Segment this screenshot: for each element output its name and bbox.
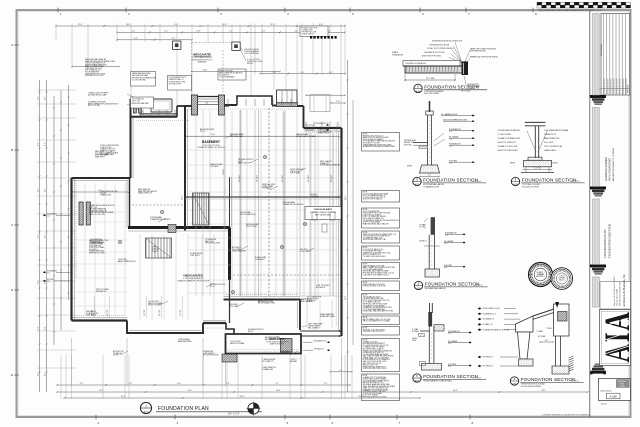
- svg-text:11'-1 3/4": 11'-1 3/4": [239, 175, 241, 182]
- svg-text:1/4" = 1'-0": 1/4" = 1'-0": [228, 413, 240, 416]
- svg-text:A: A: [11, 43, 13, 47]
- svg-text:PHALIN: PHALIN: [537, 273, 544, 276]
- svg-text:CONT TYP VERIFY: CONT TYP VERIFY: [316, 285, 330, 287]
- svg-text:CONC FTG W: CONC FTG W: [280, 351, 291, 353]
- svg-text:3'-0" TYP: 3'-0" TYP: [107, 310, 109, 316]
- svg-text:IN THICK KEYED JOINT EXP JT: IN THICK KEYED JOINT EXP JT: [363, 197, 386, 199]
- svg-text:12'-4": 12'-4": [78, 24, 83, 26]
- svg-text:1'-0": 1'-0": [448, 343, 452, 345]
- svg-text:LICENSED: LICENSED: [558, 278, 565, 280]
- svg-text:W/ EVERYBOND WILD: W/ EVERYBOND WILD: [470, 51, 487, 53]
- garage interior lines: [84, 183, 86, 316]
- svg-text:1" EXP JT: 1" EXP JT: [290, 359, 297, 361]
- svg-text:6'-2": 6'-2": [134, 38, 138, 40]
- svg-text:A190: A190: [416, 90, 420, 93]
- detail B title: [413, 177, 421, 185]
- svg-text:4'-0": 4'-0": [47, 216, 50, 218]
- front wall hatched band: [140, 114, 177, 117]
- stoop pier right: [219, 95, 225, 115]
- svg-text:184-0521: 184-0521: [559, 280, 565, 282]
- svg-text:Telephone: 312 793 0700 Fax: Telephone: 312 793 0700 Fax 312 793 0701: [614, 276, 616, 306]
- beam centerlines: [224, 110, 226, 230]
- svg-text:1'-8": 1'-8": [445, 235, 449, 237]
- svg-text:1'-6": 1'-6": [449, 146, 453, 148]
- svg-text:B: B: [11, 148, 13, 152]
- svg-text:1/2"=1'-0": 1/2"=1'-0": [475, 285, 483, 287]
- svg-text:FILLED W/ (4) #5 VERT: FILLED W/ (4) #5 VERT: [247, 61, 263, 63]
- AIA logo: [600, 310, 631, 366]
- svg-text:1'-0": 1'-0": [444, 243, 448, 245]
- svg-text:34'-6": 34'-6": [358, 396, 363, 398]
- detail F title: [510, 377, 518, 385]
- svg-text:1 3/4x9 1/4 LVL BM W/: 1 3/4x9 1/4 LVL BM W/: [244, 49, 259, 51]
- foundation plan title: [140, 402, 151, 413]
- garage right wall: [129, 178, 131, 228]
- svg-text:BED, CONNECT: BED, CONNECT: [308, 328, 319, 330]
- svg-text:A190: A190: [415, 379, 419, 382]
- svg-text:ROUGH-IN BATH: ROUGH-IN BATH: [314, 208, 332, 211]
- svg-text:CONC FTG W 2: CONC FTG W 2: [100, 147, 112, 149]
- svg-text:FTG W 2: FTG W 2: [100, 193, 106, 195]
- svg-text:28'-6": 28'-6": [240, 396, 245, 398]
- slab label box: [403, 61, 460, 67]
- svg-text:1'-0": 1'-0": [428, 175, 432, 177]
- note box: N5: [362, 246, 400, 260]
- detail E : wall section: [429, 303, 431, 313]
- svg-text:FOUNDATION PLAN: FOUNDATION PLAN: [158, 406, 209, 412]
- svg-text:8'-4": 8'-4": [37, 372, 39, 376]
- svg-text:NOTE:: NOTE:: [363, 209, 368, 211]
- svg-text:FT 0 IN REINF PER: FT 0 IN REINF PER: [85, 71, 100, 73]
- svg-text:24'-6": 24'-6": [182, 195, 184, 200]
- svg-text:16'-0": 16'-0": [126, 24, 131, 26]
- svg-text:100 FT 0 IN REINF PER: 100 FT 0 IN REINF PER: [363, 211, 381, 213]
- svg-text:225.93: 225.93: [620, 384, 625, 386]
- svg-text:3 5/8" CONC FLOOR ON: 3 5/8" CONC FLOOR ON: [202, 145, 219, 147]
- detail A title: [414, 84, 422, 92]
- svg-text:CONTR PROVIDE CONC FTG W 2: CONTR PROVIDE CONC FTG W 2: [363, 368, 388, 370]
- svg-text:5'-0": 5'-0": [171, 38, 175, 40]
- porch step walls: [226, 323, 234, 334]
- svg-text:FT OC MIN: FT OC MIN: [232, 249, 240, 251]
- svg-text:JOINT EXP JT: JOINT EXP JT: [86, 315, 96, 317]
- svg-text:16'-2": 16'-2": [345, 295, 347, 300]
- svg-text:NOTE:: NOTE:: [363, 375, 368, 377]
- striped marker band: [310, 36, 312, 39]
- svg-text:PIT BY CONTR PROVIDE: PIT BY CONTR PROVIDE: [100, 145, 119, 147]
- svg-text:16'-8": 16'-8": [276, 390, 281, 392]
- detail D title: [414, 281, 422, 289]
- svg-text:3'-0" TYP: 3'-0" TYP: [92, 310, 94, 316]
- svg-text:REVISIONS: REVISIONS: [601, 44, 603, 56]
- svg-text:PIT BY CONTR: PIT BY CONTR: [246, 226, 258, 228]
- svg-text:ON CONC FOOTING: ON CONC FOOTING: [522, 186, 540, 188]
- porch stoop walls (hatched): [134, 99, 137, 113]
- svg-text:CONCRETE FOUNDATION: CONCRETE FOUNDATION: [405, 62, 427, 65]
- svg-text:NOTE:: NOTE:: [363, 192, 368, 194]
- ROUGH-IN BATH box: [305, 207, 341, 220]
- rear porch outline: [226, 334, 302, 354]
- svg-text:3'-0": 3'-0": [449, 163, 453, 165]
- svg-text:8'-0 1/2": 8'-0 1/2": [223, 168, 225, 175]
- svg-text:A190: A190: [417, 287, 421, 290]
- svg-text:8'-4": 8'-4": [37, 326, 39, 330]
- svg-text:NOTE:: NOTE:: [363, 317, 368, 319]
- svg-text:6'-0": 6'-0": [262, 31, 266, 33]
- svg-text:EL 100 FT 0 IN REINF: EL 100 FT 0 IN REINF: [363, 395, 379, 397]
- svg-text:1'-2": 1'-2": [448, 333, 452, 335]
- right upper short dims: [306, 94, 345, 96]
- window well (dark): [281, 339, 293, 353]
- svg-text:ILLINOIS: ILLINOIS: [559, 276, 565, 278]
- svg-text:5'-4": 5'-4": [164, 31, 168, 33]
- wall shading (dotted): [188, 108, 300, 110]
- svg-text:PROVIDE CONC FTG: PROVIDE CONC FTG: [210, 284, 226, 286]
- main top wall m: [272, 105, 277, 107]
- interior partitions and framing lines: [195, 110, 197, 296]
- note box: N10: [362, 327, 400, 336]
- svg-text:THE 3D SCALE BAR IS AN ACCURAT: THE 3D SCALE BAR IS AN ACCURATE MEASURE …: [538, 9, 601, 12]
- column capital 1: [591, 95, 606, 98]
- svg-text:3'-0" TYP: 3'-0" TYP: [144, 310, 146, 316]
- porch stoop well (dark): [222, 354, 237, 362]
- svg-text:8'-4": 8'-4": [37, 142, 39, 146]
- svg-text:6'-2": 6'-2": [329, 72, 333, 74]
- note box: N7: [362, 281, 400, 291]
- svg-text:W 2 #5: W 2 #5: [210, 286, 215, 288]
- svg-text:NOTE:: NOTE:: [363, 282, 368, 284]
- encased slab: [405, 66, 462, 73]
- svg-text:A190: A190: [415, 183, 419, 186]
- svg-text:3'-0": 3'-0": [444, 267, 448, 269]
- svg-text:EL 100 FT: EL 100 FT: [310, 194, 317, 196]
- svg-text:19'-4": 19'-4": [187, 390, 192, 392]
- svg-text:NO SCALE: NO SCALE: [461, 89, 471, 92]
- svg-text:4-1/2 x 1/2 PL: 4-1/2 x 1/2 PL: [544, 142, 554, 144]
- svg-text:FOOTING 3'-0": FOOTING 3'-0": [314, 349, 325, 351]
- svg-text:HOUSE/GARAGE COMMON WALL: HOUSE/GARAGE COMMON WALL: [423, 380, 452, 383]
- svg-text:1'-6": 1'-6": [272, 72, 276, 74]
- svg-text:FOUNDATION SECTION: FOUNDATION SECTION: [425, 282, 480, 287]
- main bottom wall: [224, 299, 301, 301]
- detail F : porch slab drawing: [516, 316, 534, 332]
- svg-text:PIT BY CONTR PROVIDE CONC FTG: PIT BY CONTR PROVIDE CONC FTG: [363, 300, 390, 302]
- note box: N1: [362, 133, 400, 152]
- svg-text:11'-1 3/4": 11'-1 3/4": [308, 175, 310, 182]
- wing bottom wall: [72, 319, 128, 321]
- main top wall r1: [298, 105, 304, 107]
- wing top wall: [72, 177, 131, 179]
- stair run 2: [145, 238, 147, 258]
- svg-text:SUMP PIT BY CONTR: SUMP PIT BY CONTR: [89, 252, 106, 254]
- wall jog: [176, 106, 178, 117]
- svg-text:3'-0": 3'-0": [448, 366, 452, 368]
- connection device (dark): [462, 62, 469, 76]
- svg-text:E: E: [11, 373, 13, 377]
- svg-text:4'-0": 4'-0": [47, 273, 50, 275]
- wall step down: [303, 106, 305, 128]
- svg-text:7" LEDG: 7" LEDG: [546, 328, 553, 330]
- svg-text:EL 100 FT 0: EL 100 FT 0: [89, 249, 98, 251]
- svg-text:8'-4": 8'-4": [37, 234, 39, 238]
- note box: N2: [362, 191, 400, 203]
- svg-text:1/2"=1'-0": 1/2"=1'-0": [571, 380, 579, 382]
- seal stamp 1: [529, 263, 553, 287]
- window/opening ticks along top wall: [227, 99, 229, 106]
- svg-text:0 IN REINF: 0 IN REINF: [310, 196, 318, 198]
- svg-text:100 FT 0: 100 FT 0: [113, 355, 119, 357]
- svg-text:18'-2": 18'-2": [541, 390, 546, 392]
- svg-text:11'-1 3/4": 11'-1 3/4": [257, 175, 259, 182]
- svg-text:NOTE:: NOTE:: [363, 232, 368, 234]
- svg-text:THICK KEYED JOINT: THICK KEYED JOINT: [205, 243, 220, 245]
- svg-text:DIMS IN FIELD: DIMS IN FIELD: [90, 241, 102, 243]
- svg-text:FOOTING: FOOTING: [47, 279, 55, 281]
- svg-text:35'-0": 35'-0": [121, 396, 126, 398]
- interior bearing wall: [185, 196, 341, 198]
- svg-text:W/ PITCH: W/ PITCH: [404, 144, 412, 146]
- svg-text:& CONC LEDGE DETAIL: & CONC LEDGE DETAIL: [521, 385, 541, 388]
- detail B : wall section: [429, 101, 431, 112]
- svg-text:ON N CHICAGO AVE: ON N CHICAGO AVE: [608, 158, 611, 181]
- column capital 3: [591, 265, 606, 268]
- main left wall: [184, 106, 186, 231]
- wing interior lines: [139, 234, 141, 320]
- svg-text:JOINT EXP JT: JOINT EXP JT: [190, 255, 200, 257]
- svg-text:@ GARAGE DOOR: @ GARAGE DOOR: [423, 185, 440, 188]
- svg-text:NOTE:: NOTE:: [363, 328, 368, 330]
- stoop outline: [151, 99, 172, 112]
- svg-text:IN THICK KEYED JOINT: IN THICK KEYED JOINT: [169, 81, 186, 83]
- note box: N12: [362, 374, 400, 401]
- svg-text:7'-2": 7'-2": [275, 383, 279, 385]
- svg-text:8'-4": 8'-4": [37, 280, 39, 284]
- main top wall l: [225, 104, 238, 106]
- svg-text:DOOR TOP OF: DOOR TOP OF: [300, 251, 311, 253]
- svg-text:GROUNDING ELECTRODE: GROUNDING ELECTRODE: [430, 44, 450, 46]
- svg-text:GARFIELD HOMES: GARFIELD HOMES: [604, 157, 608, 181]
- sheet number box: [599, 379, 631, 401]
- bottom wall mid: [203, 322, 226, 324]
- svg-text:Chicago, Illinois 60606: Chicago, Illinois 60606: [617, 289, 619, 306]
- svg-text:FOUNDATION SECTION: FOUNDATION SECTION: [424, 85, 479, 90]
- svg-text:PROVIDE CONC FTG: PROVIDE CONC FTG: [238, 159, 254, 161]
- svg-text:BY CONTR PROVIDE CONC FTG W: BY CONTR PROVIDE CONC FTG W: [363, 345, 389, 347]
- svg-text:STEEL COL ON: STEEL COL ON: [318, 129, 329, 131]
- svg-text:3'-0": 3'-0": [47, 281, 50, 283]
- se wall: [299, 300, 301, 331]
- svg-text:209 West Jackson Blvd Ste 714: 209 West Jackson Blvd Ste 714: [618, 282, 621, 306]
- detail C : steel column: [525, 121, 546, 123]
- svg-text:FOOTING 3'-0": FOOTING 3'-0": [483, 357, 494, 359]
- svg-text:PROVIDE CONC FTG W 2: PROVIDE CONC FTG W 2: [85, 75, 104, 77]
- svg-text:W/ WWM: W/ WWM: [412, 331, 419, 333]
- front door notch: [237, 96, 272, 105]
- svg-text:100 FT 0 IN: 100 FT 0 IN: [132, 101, 140, 103]
- svg-text:21'-0": 21'-0": [364, 390, 369, 392]
- svg-text:24'-6": 24'-6": [203, 69, 208, 71]
- grid reference ticks: [57, 8, 59, 13]
- floor drain symbols: [231, 290, 234, 293]
- svg-text:NOTE:: NOTE:: [363, 340, 368, 342]
- svg-text:1'-6": 1'-6": [131, 31, 135, 33]
- svg-text:28'-6": 28'-6": [345, 195, 347, 200]
- svg-text:1'-6": 1'-6": [339, 370, 343, 372]
- svg-text:STEEL COL ON CONC: STEEL COL ON CONC: [89, 214, 106, 216]
- mid note box (porch): [218, 69, 246, 80]
- svg-text:FOUNDATION-SECTION: FOUNDATION-SECTION: [608, 224, 612, 258]
- svg-text:1/2"=1'-0": 1/2"=1'-0": [572, 181, 580, 183]
- misc fixture rects: [312, 212, 317, 220]
- common wall pier: [168, 225, 176, 233]
- note box: N6: [362, 263, 400, 279]
- svg-text:PROVIDE CONC FTG W 2 #5: PROVIDE CONC FTG W 2 #5: [363, 135, 384, 137]
- svg-text:UNEXCAVATED: UNEXCAVATED: [183, 274, 202, 278]
- svg-text:2'-0" SQ: 2'-0" SQ: [534, 168, 541, 170]
- svg-text:8'-4": 8'-4": [44, 234, 46, 238]
- porch column pads: [173, 41, 181, 49]
- svg-text:1: 1: [145, 404, 147, 408]
- svg-text:FOUNDATION SECTION: FOUNDATION SECTION: [423, 178, 478, 183]
- svg-text:COL ON CONC: COL ON CONC: [148, 301, 160, 303]
- svg-text:6 FT OC: 6 FT OC: [200, 131, 207, 133]
- stair run 1: [192, 193, 194, 225]
- note box: N8: [362, 294, 400, 315]
- svg-text:10 IN THICK: 10 IN THICK: [210, 166, 220, 168]
- svg-text:11'-8": 11'-8": [271, 24, 276, 26]
- svg-text:1'-0": 1'-0": [449, 139, 453, 141]
- top-right note box: [300, 26, 328, 37]
- svg-text:6'-0": 6'-0": [177, 383, 181, 385]
- svg-text:9'-6": 9'-6": [226, 383, 230, 385]
- stepped wall: [127, 321, 203, 334]
- room wall right: [229, 177, 231, 228]
- svg-text:8'-4": 8'-4": [44, 372, 46, 376]
- svg-text:FOUNDATION: FOUNDATION: [392, 53, 404, 56]
- svg-text:KEYED: KEYED: [412, 338, 418, 340]
- svg-text:NOTE:: NOTE:: [363, 295, 368, 297]
- svg-text:11'-1 3/4": 11'-1 3/4": [331, 175, 333, 182]
- foundation plan : dimension frame: [56, 25, 104, 27]
- title block strip: [589, 10, 591, 417]
- left edge leaders: [43, 271, 46, 273]
- svg-text:1'-2": 1'-2": [449, 131, 453, 133]
- column base: [595, 364, 602, 366]
- svg-text:Sheet Number: Sheet Number: [601, 390, 612, 393]
- svg-text:W 2 #5: W 2 #5: [238, 161, 243, 163]
- svg-text:5'-4": 5'-4": [301, 72, 305, 74]
- svg-text:SUMP PIT BY: SUMP PIT BY: [95, 156, 105, 158]
- porch ledge lines: [300, 330, 342, 332]
- svg-text:NOTE:: NOTE:: [363, 264, 368, 266]
- svg-text:TO THE COLUMN: TO THE COLUMN: [498, 134, 512, 136]
- svg-text:NOTE:: NOTE:: [363, 247, 368, 249]
- svg-text:UNEXCAVATED: UNEXCAVATED: [193, 54, 212, 57]
- svg-text:1/2"=1'-0": 1/2"=1'-0": [473, 181, 481, 183]
- note box: N9: [362, 316, 400, 325]
- svg-text:6'-8": 6'-8": [205, 103, 209, 105]
- svg-text:ARLINGTON HEIGHTS, IL 60004: ARLINGTON HEIGHTS, IL 60004: [612, 148, 615, 181]
- svg-text:FOUNDATION SECTION: FOUNDATION SECTION: [522, 178, 577, 183]
- detail C title: [511, 177, 519, 185]
- svg-text:14'-6": 14'-6": [453, 390, 458, 392]
- svg-text:KEYED JT: KEYED JT: [420, 241, 427, 243]
- right wall: [340, 128, 342, 336]
- svg-text:3'-0" TYP: 3'-0" TYP: [180, 310, 182, 316]
- svg-text:ELECTRIC RISER: ELECTRIC RISER: [424, 93, 440, 95]
- svg-text:FOOTING 3'-0": FOOTING 3'-0": [483, 366, 494, 368]
- svg-text:7'-2": 7'-2": [229, 31, 233, 33]
- note box: N4: [362, 231, 400, 243]
- vestibule wall: [185, 105, 192, 107]
- svg-text:8'-4": 8'-4": [44, 326, 46, 330]
- svg-text:11'-1 3/4": 11'-1 3/4": [282, 175, 284, 182]
- svg-text:A-190: A-190: [610, 395, 618, 399]
- deck above (dashed): [310, 95, 330, 112]
- svg-text:TURNDOWN EDGE, PITCH TO: TURNDOWN EDGE, PITCH TO: [192, 59, 213, 61]
- svg-text:BY CONTR PROVIDE: BY CONTR PROVIDE: [203, 355, 218, 357]
- svg-text:BASEMENT: BASEMENT: [202, 140, 220, 144]
- garage door piers: [79, 202, 83, 225]
- checkered scale bar: [537, 2, 542, 5]
- svg-text:IN THICK KEYED: IN THICK KEYED: [190, 253, 203, 255]
- revision table: [601, 14, 630, 96]
- north arrow: [248, 403, 259, 414]
- svg-text:SUMP PIT BY CONTR PROVIDE CONC: SUMP PIT BY CONTR PROVIDE CONC: [363, 252, 392, 254]
- main top wall r2: [304, 127, 342, 129]
- svg-text:4 IN STONE: 4 IN STONE: [118, 259, 127, 261]
- svg-text:2/17/94: 2/17/94: [620, 386, 625, 388]
- detail F leader notes: [478, 307, 482, 309]
- svg-text:A190: A190: [514, 183, 518, 186]
- garage slab at detail B: [413, 142, 428, 144]
- svg-text:3'-0" TYP: 3'-0" TYP: [159, 310, 161, 316]
- house-garage common wall: [128, 226, 229, 229]
- garage left wall: [130, 99, 132, 178]
- svg-text:1/2"=1'-0": 1/2"=1'-0": [473, 377, 481, 379]
- stoop front wall: [198, 96, 219, 98]
- note box: N11: [362, 339, 400, 372]
- svg-text:2'-0": 2'-0": [545, 340, 549, 342]
- svg-text:21'-4": 21'-4": [211, 134, 216, 136]
- svg-text:GROUNDING ELECTRODE CONDUCTOR: GROUNDING ELECTRODE CONDUCTOR: [432, 41, 463, 43]
- svg-text:NOTE:: NOTE:: [363, 134, 368, 136]
- svg-text:EXP 4x4: EXP 4x4: [247, 63, 253, 65]
- svg-text:4'-8": 4'-8": [294, 31, 298, 33]
- svg-text:11'-8": 11'-8": [196, 31, 201, 33]
- svg-text:ROUGH-IN PLUMBING FOR FUTURE: ROUGH-IN PLUMBING FOR FUTURE: [310, 212, 336, 214]
- detail D : wall section: [431, 217, 435, 235]
- svg-text:COL ON CONC: COL ON CONC: [230, 341, 242, 343]
- stoop pier left: [192, 95, 198, 115]
- svg-text:JOINT: JOINT: [412, 340, 417, 342]
- svg-text:8'-4": 8'-4": [37, 188, 39, 192]
- svg-text:25'-0" MIN: 25'-0" MIN: [426, 78, 435, 80]
- wing left wall: [70, 178, 72, 321]
- detail E title: [413, 374, 421, 382]
- svg-text:IN REINF PER: IN REINF PER: [203, 351, 214, 353]
- svg-text:FT 0 IN: FT 0 IN: [95, 153, 100, 155]
- svg-text:4" x 4" x 1/2" CONC: 4" x 4" x 1/2" CONC: [247, 59, 260, 61]
- svg-text:PROVIDE CONC FTG W: PROVIDE CONC FTG W: [301, 27, 318, 29]
- column capital 2: [591, 187, 606, 190]
- svg-text:FOUNDATION SECTION: FOUNDATION SECTION: [423, 374, 478, 379]
- svg-text:8'-4": 8'-4": [44, 96, 46, 100]
- svg-text:CONTR PROVIDE CONC: CONTR PROVIDE CONC: [100, 191, 119, 193]
- svg-text:FOUNDATION-PLAN: FOUNDATION-PLAN: [603, 230, 607, 258]
- svg-text:A190: A190: [513, 382, 517, 385]
- svg-text:W/ FRAME WALL ABOVE: W/ FRAME WALL ABOVE: [425, 287, 447, 290]
